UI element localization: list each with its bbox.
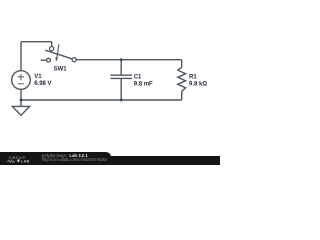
svg-text:6.98 V: 6.98 V [34, 81, 51, 87]
voltage source V1 [12, 71, 31, 90]
wire right horizontal (top net) [76, 59, 181, 61]
svg-text:LAB: LAB [21, 160, 29, 164]
CircuitLab logo bolt [17, 160, 21, 163]
wire resistor bottom [181, 91, 183, 100]
junction dot top (cap to top net) [120, 58, 123, 61]
svg-text:http://circuitlab.com/c/mda47n: http://circuitlab.com/c/mda47n7sdsv [42, 157, 108, 162]
wire left vertical (bottom) [20, 89, 22, 100]
blade [45, 50, 72, 59]
switch SW1 [41, 44, 73, 60]
ground [12, 100, 29, 115]
switch arrowhead [55, 57, 58, 62]
junction dot bottom (cap to bottom net) [120, 99, 123, 102]
switch terminal top throw [50, 47, 54, 51]
footer attribution box [0, 152, 111, 165]
svg-text:9.8 mF: 9.8 mF [134, 81, 153, 87]
svg-text:9.8 kΩ: 9.8 kΩ [189, 81, 207, 87]
svg-text:C1: C1 [134, 75, 142, 81]
wire top-left horizontal [21, 41, 52, 43]
wire switch feed vertical [51, 42, 53, 47]
arrow shaft [57, 44, 59, 57]
CircuitLab logo squiggle [7, 160, 15, 162]
switch terminal bottom throw [47, 58, 51, 62]
throw stub (unconnected) [41, 59, 47, 61]
wire left vertical (top) [20, 42, 22, 71]
wire bottom horizontal [21, 99, 182, 101]
wire right vertical to resistor [181, 60, 183, 67]
svg-text:R1: R1 [189, 75, 197, 81]
svg-text:V1: V1 [34, 74, 42, 80]
switch terminal common [72, 58, 76, 62]
footer watermark bar [0, 156, 220, 165]
capacitor C1 [110, 60, 132, 100]
svg-text:SW1: SW1 [54, 67, 68, 73]
junction dot ground node [20, 99, 23, 102]
resistor R1 [178, 67, 186, 91]
